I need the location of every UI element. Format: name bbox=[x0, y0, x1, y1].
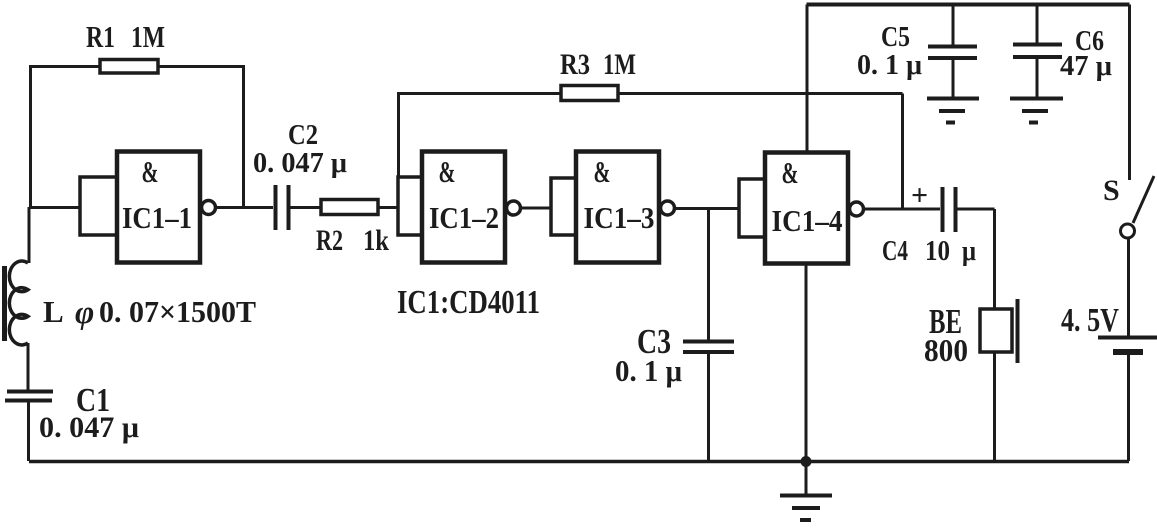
wire: IC1-1 output to C2 bbox=[215, 206, 273, 209]
capacitor C3 bbox=[683, 209, 734, 462]
svg-text:0. 1 μ: 0. 1 μ bbox=[615, 353, 682, 388]
resistor R3 bbox=[399, 86, 903, 209]
label IC1-2 bbox=[429, 154, 499, 235]
svg-text:10: 10 bbox=[925, 236, 950, 267]
resistor R1 bbox=[31, 60, 244, 208]
capacitor C2 bbox=[276, 185, 322, 230]
ground for C6 bbox=[1010, 99, 1063, 123]
capacitor C6 bbox=[1013, 5, 1062, 98]
label S bbox=[1103, 174, 1120, 207]
ground for C5 bbox=[927, 99, 979, 123]
NAND gate IC1-3 bbox=[551, 152, 675, 263]
wire: IC1-3 output to IC1-4 bbox=[674, 207, 739, 210]
svg-text:S: S bbox=[1103, 174, 1120, 207]
label IC1-4 bbox=[772, 155, 843, 238]
label R3 1M bbox=[560, 48, 636, 81]
svg-text:&: & bbox=[782, 155, 799, 190]
svg-text:R1: R1 bbox=[86, 19, 115, 54]
wire: top power rail bbox=[807, 3, 1130, 7]
svg-text:&: & bbox=[439, 154, 456, 189]
label R2 1k bbox=[316, 224, 389, 257]
svg-text:0. 1 μ: 0. 1 μ bbox=[857, 49, 923, 81]
wire: IC1-4 output to C4 bbox=[863, 208, 940, 211]
svg-text:μ: μ bbox=[962, 236, 976, 267]
svg-text:1M: 1M bbox=[603, 48, 636, 81]
svg-text:0. 07×1500T: 0. 07×1500T bbox=[99, 294, 256, 329]
svg-text:0. 047 μ: 0. 047 μ bbox=[39, 411, 139, 444]
label IC1:CD4011 bbox=[397, 284, 540, 321]
svg-text:IC1–3: IC1–3 bbox=[584, 200, 655, 235]
svg-text:R2: R2 bbox=[316, 224, 343, 257]
NAND gate IC1-2 bbox=[398, 152, 521, 263]
wire: IC1-4 Vdd lead (top rail down to IC1-4) bbox=[806, 5, 809, 154]
wire: left branch / input node bbox=[29, 207, 80, 263]
wire: bottom rail bbox=[29, 460, 1129, 464]
wire: IC1-4 ground lead bbox=[805, 264, 808, 462]
svg-text:&: & bbox=[594, 154, 611, 189]
speaker BE bbox=[980, 299, 1018, 461]
capacitor C4 bbox=[943, 187, 995, 309]
switch S bbox=[1121, 5, 1155, 337]
NAND gate IC1-4 bbox=[739, 153, 864, 264]
NAND gate IC1-1 bbox=[80, 152, 216, 263]
label C6 value bbox=[1060, 26, 1112, 82]
svg-text:1M: 1M bbox=[131, 19, 165, 54]
svg-text:L: L bbox=[43, 294, 64, 329]
battery B 4.5V bbox=[1098, 338, 1157, 462]
inductor L bbox=[5, 261, 29, 390]
svg-text:IC1–4: IC1–4 bbox=[772, 203, 843, 238]
svg-text:C4: C4 bbox=[882, 236, 908, 267]
svg-text:1k: 1k bbox=[363, 224, 389, 257]
capacitor C1 bbox=[5, 392, 53, 462]
svg-text:47 μ: 47 μ bbox=[1060, 51, 1112, 82]
label IC1-3 bbox=[584, 154, 655, 235]
label C1 value bbox=[39, 382, 139, 444]
svg-text:+: + bbox=[911, 179, 928, 212]
wire: IC1-2 output to IC1-3 bbox=[520, 207, 551, 210]
label BE 800 bbox=[924, 302, 968, 368]
capacitor C5 bbox=[928, 5, 977, 98]
svg-text:φ: φ bbox=[75, 295, 94, 331]
svg-text:IC1–2: IC1–2 bbox=[429, 200, 499, 235]
junction node at ground bbox=[801, 456, 812, 467]
ground (main) bbox=[780, 462, 832, 521]
label C5 value bbox=[857, 22, 923, 81]
label C4 value bbox=[882, 236, 976, 267]
svg-text:&: & bbox=[142, 154, 159, 189]
label C3 value bbox=[615, 322, 682, 388]
svg-text:4. 5V: 4. 5V bbox=[1061, 302, 1119, 339]
svg-text:R3: R3 bbox=[560, 48, 590, 81]
svg-text:IC1:CD4011: IC1:CD4011 bbox=[397, 284, 540, 321]
svg-text:IC1–1: IC1–1 bbox=[122, 200, 192, 235]
label 4.5V bbox=[1061, 302, 1119, 339]
label C4 polarity + bbox=[911, 179, 928, 212]
label IC1-1 bbox=[122, 154, 192, 235]
svg-text:0. 047 μ: 0. 047 μ bbox=[253, 147, 348, 179]
svg-text:800: 800 bbox=[924, 332, 968, 368]
label R1 1M bbox=[86, 19, 165, 54]
label C2 value bbox=[253, 119, 348, 179]
label L bbox=[43, 294, 256, 331]
resistor R2 bbox=[321, 200, 398, 215]
